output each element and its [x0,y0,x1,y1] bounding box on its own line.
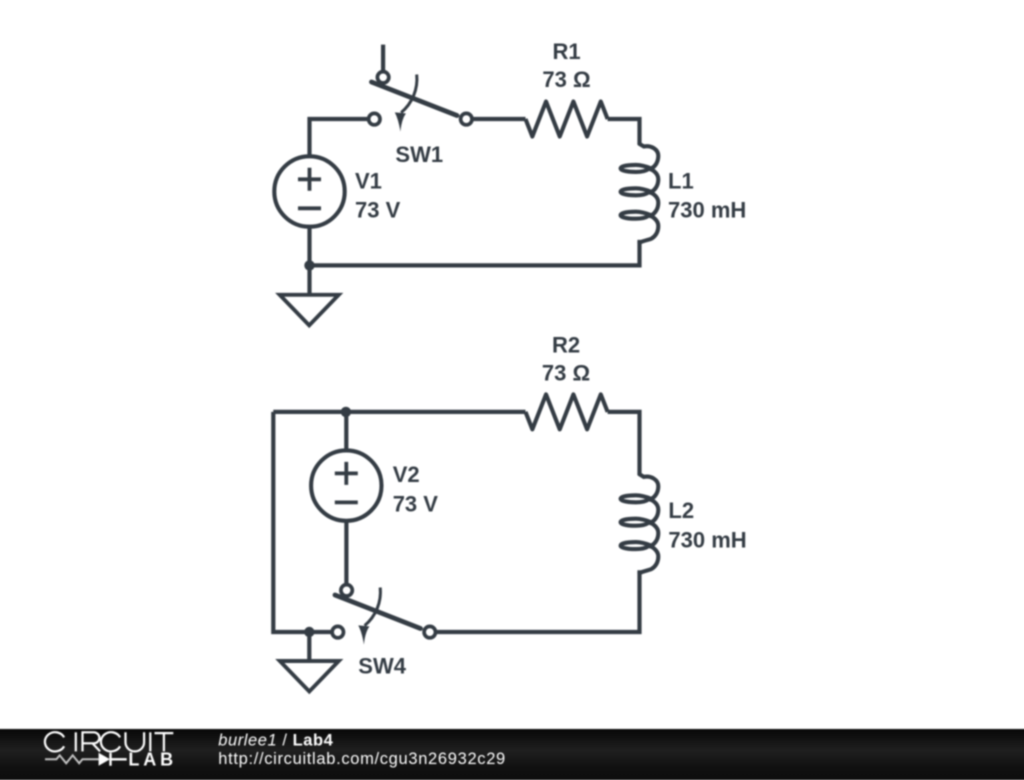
wire V1 bottom to node [307,227,311,266]
node C (ground junction) [304,627,314,637]
svg-text:730 mH: 730 mH [668,528,746,553]
wire top wire circuit 2 [273,410,525,414]
ground GND1 [280,295,339,326]
wire V2 bottom to SW4 top [344,521,348,584]
voltage source V1 [274,156,344,226]
logo resistor-diode glyph [45,755,99,763]
wire SW1 top stub [381,45,385,72]
resistor R2 [526,394,608,429]
svg-text:73 Ω: 73 Ω [542,67,590,92]
ground GND2 [280,661,339,692]
svg-text:730 mH: 730 mH [668,197,746,222]
svg-text:LAB: LAB [128,750,177,770]
svg-text:R1: R1 [552,39,580,64]
inductor L2 [621,474,659,573]
svg-text:73 V: 73 V [393,492,439,517]
svg-text:L2: L2 [668,498,694,523]
svg-text:R2: R2 [552,332,580,357]
svg-text:SW1: SW1 [395,142,443,167]
resistor R1 [526,102,608,137]
logo CIRCUIT wordmark [45,732,173,751]
wire node to ground 1 [307,265,311,295]
wire L1 bottom to node [310,240,640,266]
wire R1 to L1 top [608,119,640,144]
svg-text:V1: V1 [355,168,382,193]
svg-text:http://circuitlab.com/cgu3n269: http://circuitlab.com/cgu3n26932c29 [218,750,506,768]
voltage source V2 [311,450,381,520]
node B (V2+ junction) [341,407,351,417]
svg-text:L1: L1 [668,168,694,193]
svg-text:SW4: SW4 [358,654,406,679]
svg-text:V2: V2 [393,462,420,487]
wire SW1 right to R1 [473,117,525,121]
wire node to ground 2 [307,632,311,661]
wire V1 top to SW1 left [310,119,368,155]
wire left wall to node 2 [273,412,331,632]
switch SW1 [372,82,458,116]
node A (V1- junction) [304,260,314,270]
wire node 2 to V2 top [344,412,348,449]
inductor L1 [621,144,659,243]
wire L2 bottom to SW4 right [437,570,640,632]
switch SW4 [335,595,421,629]
svg-text:73 V: 73 V [355,198,401,223]
svg-text:burlee1 / Lab4: burlee1 / Lab4 [218,732,333,750]
wire R2 to L2 top [608,412,640,474]
svg-text:73 Ω: 73 Ω [542,360,590,385]
